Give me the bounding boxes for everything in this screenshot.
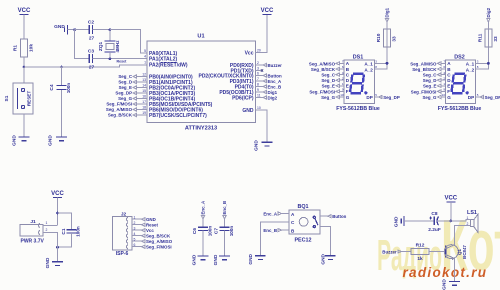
svg-text:DP: DP xyxy=(366,95,372,100)
ground left of C2 (rotated) xyxy=(54,24,75,35)
wire XTAL1 to IC PA0 xyxy=(110,30,147,53)
svg-text:Seg_F/MOSI: Seg_F/MOSI xyxy=(146,245,172,250)
svg-text:1: 1 xyxy=(46,221,48,225)
DS1 anode wires to R10 xyxy=(374,29,387,69)
DS2 pin letters xyxy=(447,61,474,100)
svg-text:A_1: A_1 xyxy=(364,61,373,66)
svg-text:Seg_E: Seg_E xyxy=(119,85,132,90)
svg-text:27: 27 xyxy=(89,36,95,42)
svg-text:Seg_G: Seg_G xyxy=(321,95,335,100)
IC U1 ATTINY2313 body xyxy=(147,34,256,132)
svg-text:4MHz: 4MHz xyxy=(115,40,120,53)
capacitor C3 xyxy=(88,49,147,71)
svg-text:Enc_A: Enc_A xyxy=(263,212,277,217)
svg-text:C8: C8 xyxy=(431,211,437,217)
svg-text:GND: GND xyxy=(45,257,51,268)
resistor R11 xyxy=(477,29,499,47)
svg-text:Reset: Reset xyxy=(117,59,128,63)
svg-text:PB7(UCSK/SCL/PCINT7): PB7(UCSK/SCL/PCINT7) xyxy=(149,113,207,119)
net flag Button on PD2 xyxy=(256,74,282,79)
net flag Enc_B above C7 xyxy=(222,201,227,227)
net flag Enc_A above C6 xyxy=(201,200,206,227)
svg-text:LS1: LS1 xyxy=(467,210,477,216)
svg-text:PD6(ICP): PD6(ICP) xyxy=(232,96,254,102)
DS1 DP net flag Seg_DP xyxy=(374,95,400,100)
svg-text:C4: C4 xyxy=(49,84,55,90)
node XTAL1 xyxy=(109,28,112,31)
svg-text:J1: J1 xyxy=(30,219,36,225)
net flags Seg_C..Seg_B/SCK into PB0..PB7 xyxy=(106,74,133,118)
DS2 DP net flag Seg_DP xyxy=(476,95,500,100)
net flag Dig1 above R10 xyxy=(385,7,390,29)
svg-text:Seg_B/SCK: Seg_B/SCK xyxy=(108,113,133,118)
J2 pin numbers xyxy=(134,215,136,247)
svg-text:Seg_E: Seg_E xyxy=(423,84,436,89)
ground under C4 xyxy=(48,135,68,146)
net flag Enc_A to BQ1 A xyxy=(263,212,289,217)
speaker LS1 xyxy=(451,210,478,246)
svg-text:Seg_F/MOSI: Seg_F/MOSI xyxy=(106,102,132,107)
svg-text:Seg_DP: Seg_DP xyxy=(383,95,400,100)
svg-text:16: 16 xyxy=(142,94,146,98)
svg-text:Dig2: Dig2 xyxy=(268,96,278,101)
U1 right pin numbers xyxy=(257,49,261,111)
svg-text:J2: J2 xyxy=(121,211,127,217)
svg-text:Buzzer: Buzzer xyxy=(382,250,397,255)
net flag Buzzer to R12 xyxy=(382,250,411,255)
DS2 anode wires to R11 xyxy=(476,29,489,69)
svg-text:A_1: A_1 xyxy=(466,61,475,66)
DS1 left net flags xyxy=(309,61,336,100)
svg-text:Seg_G: Seg_G xyxy=(118,96,132,101)
U1 left pin numbers xyxy=(142,49,146,115)
svg-text:Seg_D: Seg_D xyxy=(423,78,437,83)
svg-text:ATTINY2313: ATTINY2313 xyxy=(185,126,217,132)
svg-text:FYS-5612BB Blue: FYS-5612BB Blue xyxy=(336,106,380,112)
svg-text:Seg_D: Seg_D xyxy=(118,80,132,85)
wire Vcc pin to VCC symbol xyxy=(256,15,268,53)
net flag Enc_A on PD3 xyxy=(256,79,282,84)
svg-text:GND: GND xyxy=(48,135,54,146)
svg-text:Seg_B/SCK: Seg_B/SCK xyxy=(311,67,336,72)
svg-text:2: 2 xyxy=(467,222,469,226)
svg-text:5: 5 xyxy=(144,49,146,53)
wire VCC down to speaker rail xyxy=(450,202,452,221)
ground under C7 xyxy=(213,254,230,265)
svg-text:13: 13 xyxy=(142,78,146,82)
svg-text:GND: GND xyxy=(394,216,400,227)
net flag Enc_B on PD4 xyxy=(256,85,282,90)
svg-text:BQ1: BQ1 xyxy=(297,204,308,210)
BQ1 switch pin to ground xyxy=(320,227,336,265)
watermark big РадиоКот xyxy=(377,206,500,286)
svg-text:Button: Button xyxy=(268,74,282,79)
svg-text:Seg_A/MISO: Seg_A/MISO xyxy=(146,239,173,244)
svg-text:15: 15 xyxy=(142,89,146,93)
capacitor C2 xyxy=(75,20,110,42)
svg-text:19: 19 xyxy=(142,111,146,115)
svg-text:100n: 100n xyxy=(208,226,213,237)
transistor Q1 BC847 xyxy=(444,245,467,282)
svg-text:14: 14 xyxy=(142,83,146,87)
svg-text:Seg_C: Seg_C xyxy=(118,74,132,79)
svg-text:GND: GND xyxy=(54,24,65,30)
svg-text:PWR 3.7V: PWR 3.7V xyxy=(21,239,45,245)
svg-text:1: 1 xyxy=(467,216,469,220)
svg-text:Seg_E: Seg_E xyxy=(322,84,335,89)
svg-text:Seg_DP: Seg_DP xyxy=(115,91,132,96)
svg-text:Enc_A: Enc_A xyxy=(201,200,206,214)
node junction C2/C3 gnd branch xyxy=(73,28,76,31)
svg-text:F: F xyxy=(447,89,450,94)
svg-text:E: E xyxy=(346,84,349,89)
wire VCC to R1 xyxy=(23,15,25,40)
svg-text:GND: GND xyxy=(254,140,260,151)
svg-text:4: 4 xyxy=(144,55,146,59)
svg-text:GND: GND xyxy=(248,253,254,264)
svg-text:2: 2 xyxy=(257,61,259,65)
net flag Enc_B to BQ1 B xyxy=(263,228,289,233)
svg-text:Seg_B/SCK: Seg_B/SCK xyxy=(146,234,171,239)
svg-text:VCC: VCC xyxy=(18,8,31,14)
net flag Dig2 on PD6 xyxy=(256,96,278,101)
svg-text:Buzzer: Buzzer xyxy=(268,63,283,68)
svg-text:Vcc: Vcc xyxy=(245,51,254,57)
svg-text:100n: 100n xyxy=(66,83,71,94)
ground under transistor xyxy=(442,279,460,290)
svg-text:3: 3 xyxy=(257,67,259,71)
svg-text:G: G xyxy=(447,95,451,100)
connector J1 PWR xyxy=(20,219,57,247)
svg-text:Seg_D: Seg_D xyxy=(321,78,335,83)
display DS1 body xyxy=(336,55,380,112)
svg-text:R10: R10 xyxy=(376,33,382,42)
svg-text:17: 17 xyxy=(142,100,146,104)
svg-text:BC847: BC847 xyxy=(462,245,467,259)
DS1 pin letters xyxy=(346,61,373,100)
node GND/C1 branch xyxy=(56,246,59,249)
svg-text:GND: GND xyxy=(191,254,197,265)
svg-text:27: 27 xyxy=(89,65,95,71)
VCC supply symbol bottom-left xyxy=(51,191,64,198)
svg-text:RESET: RESET xyxy=(27,91,32,107)
capacitor C4 xyxy=(49,67,71,137)
J2 net flags xyxy=(132,218,145,249)
svg-text:GND: GND xyxy=(242,108,254,114)
node junction R1/S1/C4 xyxy=(23,66,26,69)
svg-text:10: 10 xyxy=(340,93,344,97)
svg-text:U1: U1 xyxy=(197,34,204,40)
resistor R12 xyxy=(411,243,446,263)
svg-text:100n: 100n xyxy=(76,226,81,237)
svg-text:Seg_F/MOSI: Seg_F/MOSI xyxy=(411,89,437,94)
svg-text:VCC: VCC xyxy=(261,8,274,14)
node XTAL2 xyxy=(109,57,112,60)
ground left of C8 (rotated) xyxy=(394,216,434,227)
svg-text:Dig1: Dig1 xyxy=(385,7,390,17)
connector J2 ISP-6 xyxy=(112,211,132,257)
wire reset net to IC pin PA2 xyxy=(24,65,147,67)
svg-text:Button: Button xyxy=(332,214,346,219)
DS1 seven segment digit 8. xyxy=(349,73,366,95)
svg-text:Seg_A/MISO: Seg_A/MISO xyxy=(309,61,336,66)
svg-text:1k: 1k xyxy=(417,256,423,262)
svg-text:DS1: DS1 xyxy=(353,55,364,61)
svg-text:Seg_A/MISO: Seg_A/MISO xyxy=(410,61,437,66)
resistor R1 xyxy=(13,39,35,57)
svg-text:GND: GND xyxy=(321,253,327,264)
svg-text:C6: C6 xyxy=(192,228,198,234)
ground under J1 rail xyxy=(45,247,63,268)
VCC supply symbol top-left xyxy=(18,8,31,15)
svg-text:Enc_B: Enc_B xyxy=(268,85,282,90)
svg-text:G: G xyxy=(346,95,350,100)
svg-text:Dig2: Dig2 xyxy=(486,7,491,17)
svg-text:R11: R11 xyxy=(477,33,483,42)
svg-text:Seg_DP: Seg_DP xyxy=(485,95,500,100)
svg-text:33: 33 xyxy=(493,36,499,42)
svg-text:VCC: VCC xyxy=(51,191,64,197)
svg-text:Enc_A: Enc_A xyxy=(268,79,282,84)
svg-text:GND: GND xyxy=(12,135,18,146)
svg-text:DS2: DS2 xyxy=(454,55,465,61)
net flag Dig1 on PD5 xyxy=(256,90,278,95)
capacitor C7 xyxy=(214,226,235,256)
svg-text:Reset: Reset xyxy=(146,223,158,228)
svg-text:A_2: A_2 xyxy=(466,67,475,72)
capacitor C6 xyxy=(192,226,213,256)
switch S1 RESET xyxy=(4,67,33,137)
VCC supply symbol buzzer xyxy=(444,196,457,203)
svg-text:Enc_B: Enc_B xyxy=(263,228,277,233)
svg-text:Dig1: Dig1 xyxy=(268,90,278,95)
svg-text:FYS-5612BB Blue: FYS-5612BB Blue xyxy=(438,106,482,112)
svg-text:C3: C3 xyxy=(88,49,94,55)
capacitor C1 xyxy=(58,213,81,247)
ground under S1 xyxy=(12,135,30,146)
svg-text:Seg_A/MISO: Seg_A/MISO xyxy=(106,107,133,112)
svg-text:C1: C1 xyxy=(61,228,67,234)
svg-text:PEC12: PEC12 xyxy=(294,238,311,244)
svg-text:F: F xyxy=(346,89,349,94)
svg-text:10: 10 xyxy=(442,93,446,97)
node VCC/C8/LS1 xyxy=(449,220,452,223)
ground under C6 xyxy=(191,254,208,265)
svg-text:12: 12 xyxy=(142,72,146,76)
svg-text:S1: S1 xyxy=(4,95,10,101)
DS2 pin numbers xyxy=(442,60,446,98)
svg-text:C2: C2 xyxy=(88,20,94,26)
VCC supply symbol above IC xyxy=(261,8,274,15)
DS2 seven segment digit 8. xyxy=(450,73,467,95)
node VCC/C1 branch xyxy=(56,212,59,215)
svg-text:E: E xyxy=(447,84,450,89)
svg-text:GND: GND xyxy=(213,254,219,265)
svg-text:Seg_B/SCK: Seg_B/SCK xyxy=(412,67,437,72)
rotary encoder BQ1 PEC12 xyxy=(289,204,320,244)
ground under IC xyxy=(254,140,273,151)
svg-text:2.2uF: 2.2uF xyxy=(428,227,441,233)
svg-text:Seg_F/MOSI: Seg_F/MOSI xyxy=(309,89,335,94)
svg-text:R1: R1 xyxy=(13,45,19,51)
U1 right pin names xyxy=(198,51,253,115)
DS1 pin numbers xyxy=(340,60,344,98)
DS2 left net flags xyxy=(410,61,437,100)
U1 left pin names xyxy=(149,51,213,119)
svg-text:Seg_G: Seg_G xyxy=(422,95,436,100)
svg-text:Vcc: Vcc xyxy=(146,228,154,233)
svg-text:DP: DP xyxy=(468,95,474,100)
svg-text:C7: C7 xyxy=(214,228,220,234)
svg-text:ISP-6: ISP-6 xyxy=(116,251,129,257)
wire VCC down to J1 pin1 xyxy=(57,198,59,226)
BQ1 C pin to ground xyxy=(248,222,289,265)
svg-text:100n: 100n xyxy=(229,226,234,237)
net flag Button from BQ1 switch xyxy=(320,214,347,219)
resistor R10 xyxy=(376,29,398,47)
wire gnd branch down to C3 row xyxy=(75,30,89,59)
svg-text:radiokot.ru: radiokot.ru xyxy=(403,265,488,280)
net flag Buzzer on PD0 xyxy=(256,63,283,68)
net flag Dig2 above R11 xyxy=(486,7,491,29)
svg-text:R12: R12 xyxy=(416,243,425,249)
svg-text:ZQ1: ZQ1 xyxy=(98,42,104,52)
display DS2 body xyxy=(438,55,482,112)
svg-text:PA2(RESET/dW): PA2(RESET/dW) xyxy=(149,62,188,68)
svg-text:Seg_C: Seg_C xyxy=(321,73,335,78)
svg-text:GND: GND xyxy=(442,279,448,290)
svg-text:18: 18 xyxy=(142,105,146,109)
svg-text:2: 2 xyxy=(46,228,48,232)
svg-text:10k: 10k xyxy=(29,44,35,52)
svg-text:Enc_B: Enc_B xyxy=(222,201,227,215)
svg-text:A_2: A_2 xyxy=(364,67,373,72)
svg-text:20: 20 xyxy=(257,49,261,53)
svg-text:1: 1 xyxy=(144,60,146,64)
svg-text:Seg_C: Seg_C xyxy=(423,73,437,78)
wire R1 to junction xyxy=(23,57,25,67)
unconnected PD1 xyxy=(256,69,264,71)
wire GND pin down xyxy=(256,110,268,142)
svg-text:33: 33 xyxy=(392,36,398,42)
polarized capacitor C8 2.2uF xyxy=(428,211,451,233)
svg-text:VCC: VCC xyxy=(444,196,457,202)
crystal ZQ1 4MHz xyxy=(98,30,120,59)
svg-text:GND: GND xyxy=(146,217,156,222)
